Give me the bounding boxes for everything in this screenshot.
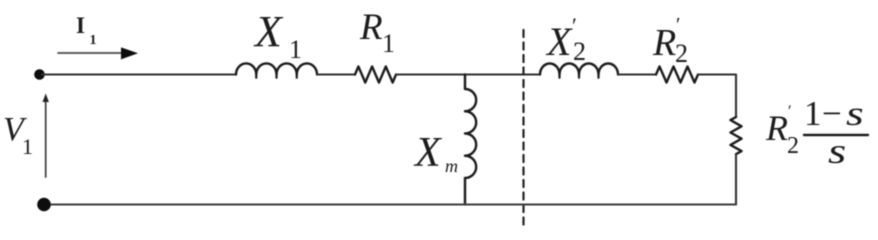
svg-text:−: − bbox=[822, 94, 842, 133]
svg-text:1: 1 bbox=[22, 134, 33, 159]
svg-text:X: X bbox=[253, 7, 284, 56]
label V1 (source voltage) bbox=[3, 111, 33, 159]
svg-text:′: ′ bbox=[676, 14, 680, 36]
label R2' bbox=[652, 14, 688, 68]
label R2' (load) with fraction (1-s)/s bbox=[765, 94, 868, 172]
svg-text:2: 2 bbox=[787, 133, 799, 159]
svg-text:1: 1 bbox=[289, 35, 302, 64]
current arrow I1 bbox=[58, 47, 138, 59]
svg-text:m: m bbox=[445, 156, 458, 176]
svg-text:R: R bbox=[652, 22, 676, 64]
svg-text:1: 1 bbox=[382, 29, 395, 58]
label I1 (current) bbox=[76, 13, 97, 48]
wire: top wire from left terminal to X1 bbox=[42, 73, 236, 75]
dashed stator/rotor boundary line bbox=[522, 30, 524, 227]
svg-text:I: I bbox=[76, 13, 85, 38]
resistor R1 bbox=[355, 67, 396, 83]
wire: between X2' and R2' bbox=[618, 73, 656, 75]
wire: from R2' to top-right corner and down bbox=[698, 75, 736, 118]
svg-text:s: s bbox=[828, 132, 846, 172]
label Xm bbox=[413, 130, 458, 176]
svg-text:R: R bbox=[359, 7, 383, 48]
node: top-left terminal dot bbox=[34, 69, 45, 80]
arrow: V1 polarity arrow (pointing up) bbox=[43, 94, 49, 178]
label X2' bbox=[545, 13, 586, 66]
resistor R2' (series rotor resistance) bbox=[656, 67, 698, 83]
svg-text:X: X bbox=[545, 19, 573, 64]
svg-text:1: 1 bbox=[804, 94, 822, 133]
label R1 bbox=[359, 7, 395, 58]
node: bottom-left terminal dot bbox=[37, 198, 51, 212]
wire: right branch lower segment to bottom wire bbox=[735, 154, 737, 204]
svg-text:′: ′ bbox=[572, 13, 577, 38]
svg-text:′: ′ bbox=[788, 103, 792, 120]
svg-text:R: R bbox=[765, 108, 788, 148]
label X1 bbox=[253, 7, 302, 64]
inductor X2' bbox=[540, 64, 618, 78]
svg-text:s: s bbox=[846, 94, 864, 133]
svg-text:2: 2 bbox=[573, 37, 586, 66]
wire: between X1 and R1 bbox=[317, 73, 355, 75]
wire: from R1 past Xm junction to X2' bbox=[396, 73, 540, 75]
resistor R2'(1-s)/s (vertical load resistor) bbox=[731, 117, 742, 154]
inductor X1 bbox=[236, 63, 317, 77]
shunt branch: magnetizing reactance Xm (vertical) bbox=[465, 75, 476, 205]
svg-text:1: 1 bbox=[90, 33, 97, 48]
svg-text:2: 2 bbox=[675, 39, 688, 68]
wire: bottom return wire bbox=[44, 204, 736, 206]
svg-text:X: X bbox=[413, 130, 443, 176]
